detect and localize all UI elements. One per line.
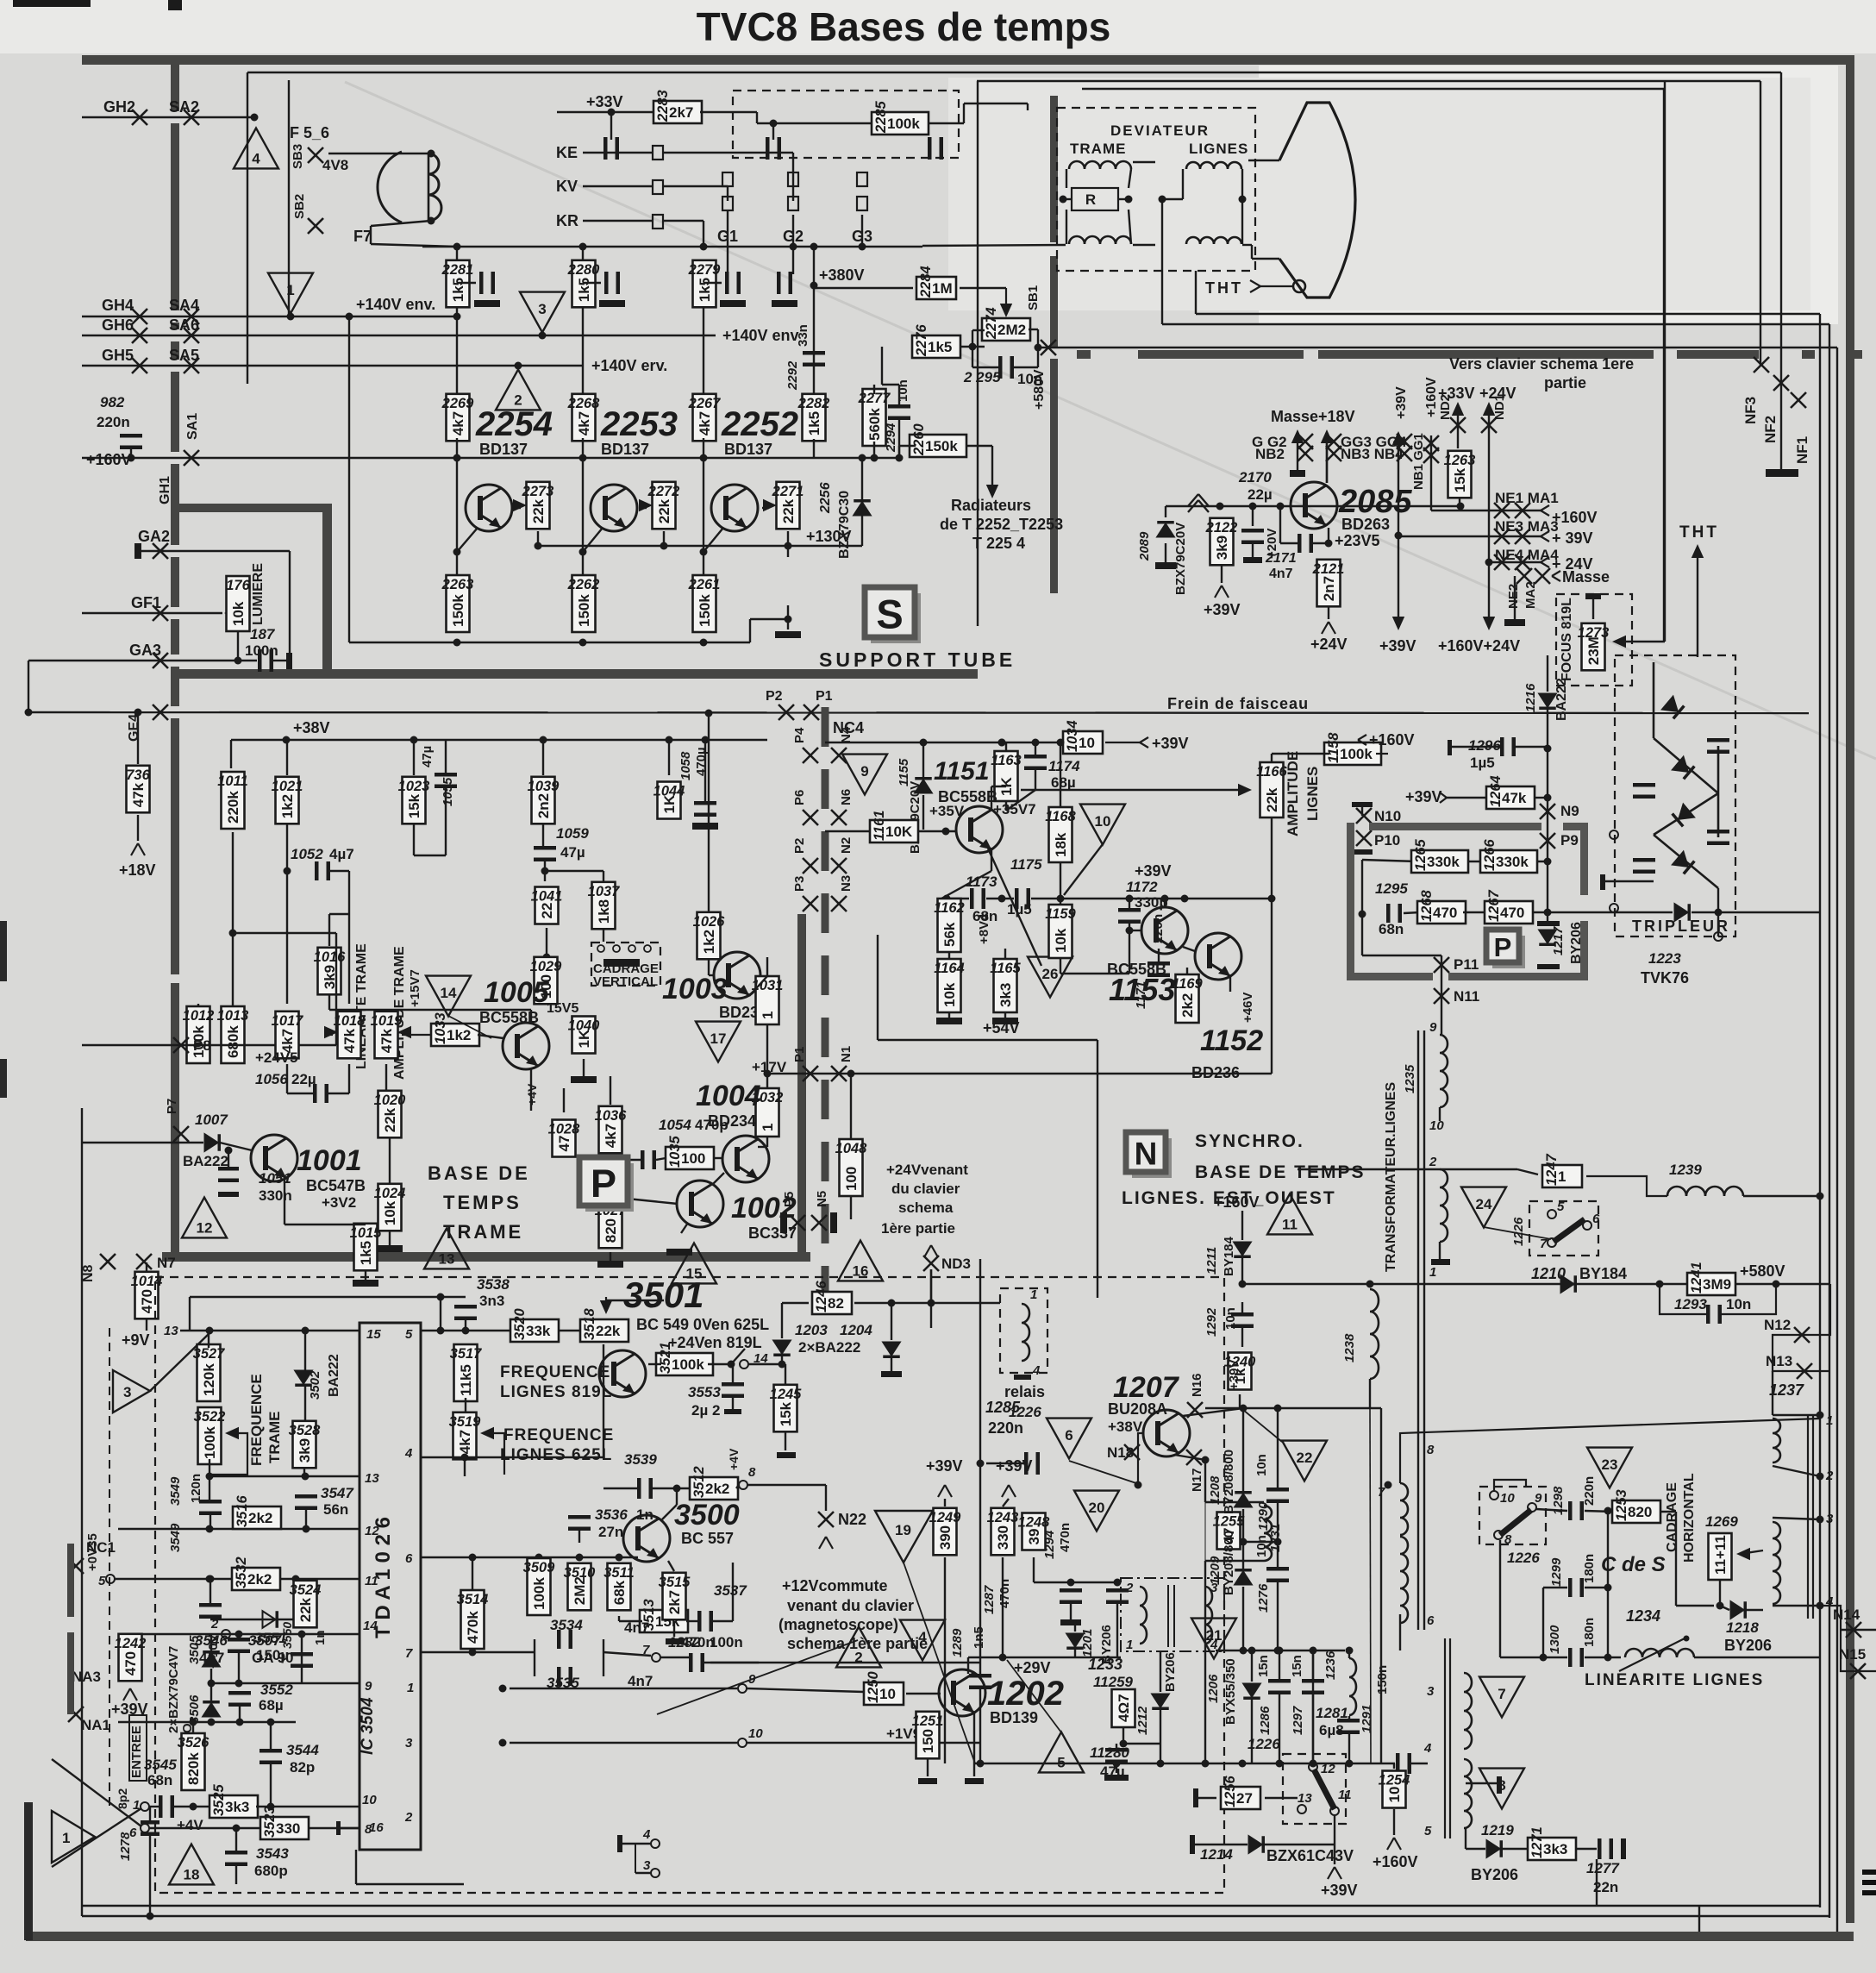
svg-text:12: 12 xyxy=(365,1524,379,1538)
wire col2 low xyxy=(582,438,584,552)
wire 1005 coll b xyxy=(329,1009,531,1011)
svg-text:1k5: 1k5 xyxy=(697,278,713,302)
wire 470 b xyxy=(1463,911,1485,913)
connector pin G3b xyxy=(857,197,867,210)
contact 6 mid xyxy=(1583,1221,1591,1230)
page split vertical gray bar b xyxy=(1050,256,1058,348)
svg-text:3522: 3522 xyxy=(194,1409,226,1425)
zener 2089 BZX79C20V xyxy=(1157,521,1174,537)
resistor 1273 23M xyxy=(1578,623,1610,671)
wire 2283-2285 xyxy=(700,111,757,113)
wire 1014 top xyxy=(146,1262,147,1273)
wire w21 top xyxy=(1440,1168,1517,1170)
resistor 2260 150k xyxy=(910,423,966,457)
wire 1277 down xyxy=(1596,1859,1598,1906)
chevron marker 2089 xyxy=(1188,494,1209,512)
transistor 1207 BU208A xyxy=(1143,1410,1190,1456)
svg-text:17: 17 xyxy=(710,1030,727,1047)
wire 3500 base drop xyxy=(676,1488,678,1505)
svg-text:2252: 2252 xyxy=(721,405,798,443)
svg-text:1297: 1297 xyxy=(1291,1706,1305,1735)
node 1287 xyxy=(1067,1579,1075,1587)
svg-text:partie: partie xyxy=(1544,374,1586,391)
wire 1020-1024 xyxy=(389,1138,391,1183)
page split dashed bar seg xyxy=(1677,350,1759,359)
page frame right thin v3 xyxy=(1663,89,1665,642)
wire tri6 diag xyxy=(1069,1461,1136,1483)
svg-text:P9: P9 xyxy=(1560,832,1579,849)
capacitor 2171 4n7 xyxy=(1298,534,1313,553)
wire 1036 bot xyxy=(610,1154,611,1197)
svg-text:+3V2: +3V2 xyxy=(322,1194,356,1211)
wire 1036 top xyxy=(610,1076,611,1105)
node col3 160V xyxy=(700,454,708,462)
svg-text:TVC8 Bases de temps: TVC8 Bases de temps xyxy=(697,4,1111,49)
svg-text:12: 12 xyxy=(197,1219,213,1236)
svg-text:3526: 3526 xyxy=(178,1735,210,1751)
connector X N1b xyxy=(831,1066,847,1081)
resistor 1034 10 xyxy=(1063,720,1103,754)
svg-text:N6: N6 xyxy=(839,789,854,805)
resistor 2261 xyxy=(688,575,721,632)
resistor 1242 470 xyxy=(115,1634,147,1682)
svg-text:BY206: BY206 xyxy=(1163,1652,1178,1692)
capacitor 1282 100n xyxy=(689,1653,704,1672)
svg-text:330n: 330n xyxy=(259,1187,292,1204)
dashed box FOCUS 819L xyxy=(1556,594,1632,686)
svg-text:6: 6 xyxy=(129,1826,137,1840)
wire P8 up xyxy=(335,933,337,1045)
svg-text:1: 1 xyxy=(1030,1287,1037,1302)
resistor 1014 470 xyxy=(131,1272,163,1319)
wire 1163 top xyxy=(1005,742,1007,751)
wire 1292 a xyxy=(1241,1302,1243,1314)
wire 2277 corner2 xyxy=(881,347,883,385)
potentiometer 1019 47k xyxy=(371,1012,403,1059)
svg-text:SA4: SA4 xyxy=(169,297,199,314)
wire emit col2 xyxy=(1204,1502,1206,1561)
wire row 1633 xyxy=(1205,1407,1381,1409)
wire lignes down xyxy=(1161,263,1163,324)
wire 3513-3537 xyxy=(686,1620,698,1622)
wire 1201 bot xyxy=(1074,1649,1076,1657)
svg-text:GA2: GA2 xyxy=(138,528,170,545)
wire 1276 a xyxy=(1277,1542,1279,1569)
node 1238 top xyxy=(1366,1281,1374,1288)
svg-text:187: 187 xyxy=(250,626,276,642)
svg-text:1k2: 1k2 xyxy=(701,930,717,954)
svg-text:LIGNES: LIGNES xyxy=(1189,141,1248,157)
wire 580 row xyxy=(1242,1283,1688,1285)
P bracket bottom bar r xyxy=(1448,973,1587,980)
right border bar xyxy=(1846,55,1854,1923)
dashdot box transfo 1233 xyxy=(1121,1578,1224,1651)
svg-text:ND2: ND2 xyxy=(1438,394,1453,420)
left gray bar segment xyxy=(171,718,179,974)
capacitor 1173 68n xyxy=(970,888,985,909)
wire 2285 up xyxy=(963,103,965,123)
svg-text:100k: 100k xyxy=(887,116,920,132)
svg-text:+140V erv.: +140V erv. xyxy=(591,357,667,374)
supply fork +18V xyxy=(131,843,145,855)
node tripleur out xyxy=(1715,909,1723,917)
page frame right thin v1 xyxy=(1780,72,1782,473)
svg-text:+24V5: +24V5 xyxy=(255,1049,298,1066)
wire 1035 out xyxy=(713,1157,723,1159)
node r1914 a xyxy=(1248,1647,1256,1655)
wire 1166 feed xyxy=(1021,789,1245,791)
resistor 1012 100k xyxy=(183,1006,215,1063)
svg-text:P: P xyxy=(1494,932,1512,962)
wire grid rail xyxy=(422,246,922,247)
node 1051 xyxy=(225,1147,233,1155)
wire 2285 lead xyxy=(757,122,872,124)
wire 1033 out xyxy=(478,1035,503,1038)
P-block frame left bar xyxy=(171,983,179,1259)
svg-text:3515: 3515 xyxy=(659,1575,691,1590)
triangle 4 b xyxy=(900,1620,945,1661)
wire 2285 out xyxy=(928,122,964,124)
terminal circle pin10r xyxy=(738,1738,747,1747)
connector X GG2 xyxy=(1298,434,1313,449)
terminal bar relais xyxy=(1014,1375,1031,1380)
wire sw top xyxy=(1312,1650,1314,1763)
node 3552 xyxy=(236,1719,244,1726)
terminal bar w2 xyxy=(1497,1776,1502,1794)
svg-text:TRANSFORMATEUR.LIGNES: TRANSFORMATEUR.LIGNES xyxy=(1384,1082,1398,1272)
svg-text:3514: 3514 xyxy=(457,1592,489,1607)
svg-text:T 225 4: T 225 4 xyxy=(972,535,1025,552)
svg-text:BU208A: BU208A xyxy=(1108,1400,1167,1418)
wire cap2295 lead xyxy=(972,366,999,368)
wire tri22 diag xyxy=(1243,1410,1282,1442)
contact 13 xyxy=(1298,1805,1306,1813)
wire 1202 emit xyxy=(973,1712,975,1776)
svg-text:1017: 1017 xyxy=(272,1013,304,1029)
contact 11 xyxy=(1330,1807,1339,1815)
wire 1013 top xyxy=(232,933,234,1005)
svg-text:1026: 1026 xyxy=(693,914,726,930)
resistor 2282 xyxy=(797,394,830,442)
svg-text:7: 7 xyxy=(642,1643,650,1657)
svg-text:3k9: 3k9 xyxy=(297,1438,313,1463)
wire 1052 out xyxy=(330,870,349,872)
svg-text:470: 470 xyxy=(122,1651,139,1675)
connector X GH4 xyxy=(132,309,147,324)
svg-text:BY206: BY206 xyxy=(1569,922,1584,964)
svg-text:+46V: +46V xyxy=(1241,993,1255,1023)
svg-text:NC4: NC4 xyxy=(833,719,864,736)
wire N22 drop xyxy=(825,1485,827,1511)
wire col2 mid xyxy=(582,307,584,397)
wire 1026 feed up xyxy=(708,713,710,911)
wire 1282 l xyxy=(660,1657,690,1658)
P bracket top bar xyxy=(1369,823,1541,830)
wire 1032 bot xyxy=(766,1137,768,1147)
node rail c2 xyxy=(579,243,587,251)
wire 1052 down xyxy=(348,871,350,1004)
wire tri14 diag xyxy=(448,1016,491,1038)
arrow into 3519 xyxy=(480,1427,494,1439)
wire 1286 b xyxy=(1279,1693,1280,1763)
wire row 1914 xyxy=(1216,1650,1345,1651)
wire 4n7 branch v xyxy=(1279,506,1281,543)
resistor 1245 15k xyxy=(770,1385,803,1432)
resistor 2274 2M2 xyxy=(982,307,1030,341)
svg-text:4k7: 4k7 xyxy=(457,1430,473,1454)
svg-text:4n7: 4n7 xyxy=(1269,567,1293,581)
svg-text:15k: 15k xyxy=(406,793,422,818)
node zener top xyxy=(859,454,866,462)
connector pin G3 xyxy=(857,172,867,186)
triangle 17 xyxy=(696,1022,741,1062)
svg-text:47µ: 47µ xyxy=(420,746,435,767)
wire 1023 bot xyxy=(413,824,415,855)
coil prim 8-7 xyxy=(1400,1483,1408,1535)
svg-text:1298: 1298 xyxy=(1551,1486,1566,1515)
wire 1037 top xyxy=(603,871,604,881)
connector X N16 xyxy=(1187,1402,1203,1418)
wire 1290 a xyxy=(1277,1408,1279,1489)
arrow into 2273 xyxy=(513,499,527,511)
wire 1002 coll xyxy=(712,1173,724,1185)
wire 1212 top xyxy=(1160,1651,1161,1692)
wire 1211 top xyxy=(1241,1211,1243,1240)
connector X GH2 xyxy=(132,110,147,125)
wire 1151 coll up2 xyxy=(991,786,1006,787)
wire 1237 top xyxy=(1773,1414,1820,1416)
svg-text:BASE DE TEMPS: BASE DE TEMPS xyxy=(1195,1162,1366,1182)
svg-text:3536: 3536 xyxy=(595,1506,628,1523)
wire 1280 top xyxy=(1116,1744,1117,1750)
svg-text:10k: 10k xyxy=(941,982,958,1007)
wire GA3 drop xyxy=(28,661,29,712)
connector X NA1 xyxy=(68,1707,84,1722)
capacitor tripleur L2 xyxy=(1633,858,1655,874)
wire 3513 in xyxy=(619,1620,642,1622)
svg-text:1242: 1242 xyxy=(115,1636,147,1651)
svg-text:14: 14 xyxy=(441,985,457,1001)
arrow into 176 xyxy=(224,607,238,619)
svg-text:N3: N3 xyxy=(839,875,854,892)
wire emit col3 xyxy=(1204,1561,1206,1763)
svg-text:1238: 1238 xyxy=(1342,1333,1357,1362)
wire 3534 bracket r xyxy=(603,1639,604,1676)
wire 3543 bot xyxy=(235,1864,237,1884)
capacitor 1051 330n xyxy=(218,1167,239,1182)
resistor 1044 1K xyxy=(653,782,685,819)
wire tri3 diag xyxy=(150,1333,209,1391)
dashed box deviateur xyxy=(1057,108,1255,271)
svg-text:Frein de faisceau: Frein de faisceau xyxy=(1167,695,1309,712)
svg-text:982: 982 xyxy=(100,394,125,410)
wire 1259-row xyxy=(1123,1743,1160,1744)
ground 1002 xyxy=(666,1249,692,1256)
fork +39V 1034 xyxy=(1105,737,1148,748)
wire KR right xyxy=(663,220,703,222)
svg-text:3511: 3511 xyxy=(603,1565,634,1581)
resistor 1017 4k7 xyxy=(272,1012,304,1059)
slash 1234 xyxy=(1619,1636,1690,1672)
wire trame right low xyxy=(1129,210,1131,244)
svg-text:1024: 1024 xyxy=(374,1186,406,1201)
svg-text:P7: P7 xyxy=(165,1099,179,1114)
wire 1202 coll xyxy=(967,1657,969,1674)
svg-text:BZX79C30: BZX79C30 xyxy=(837,491,852,559)
resistor 1168 18k xyxy=(1045,807,1076,862)
wire 176 down xyxy=(237,631,239,661)
wire 1158 left xyxy=(1272,753,1329,755)
node 1172 xyxy=(1126,895,1134,903)
wire 1282 ext xyxy=(710,1662,980,1663)
svg-text:22µ: 22µ xyxy=(291,1071,316,1087)
node 1239 out xyxy=(1817,1193,1824,1200)
wire GA2 drop xyxy=(289,551,291,660)
capacitor 2294 10n xyxy=(888,404,910,420)
svg-text:2292: 2292 xyxy=(785,360,800,391)
svg-text:3k3: 3k3 xyxy=(997,983,1014,1007)
wire dev drop xyxy=(1027,103,1029,110)
diode 1201 BY206 xyxy=(1066,1634,1084,1650)
resistor 3526 820k xyxy=(178,1733,210,1790)
svg-text:de T 2252_T2253: de T 2252_T2253 xyxy=(940,516,1063,533)
wire 1021 bot2 xyxy=(286,871,288,1004)
svg-text:1ère partie: 1ère partie xyxy=(881,1220,955,1237)
node pin15 b xyxy=(302,1327,310,1335)
svg-text:1254: 1254 xyxy=(1379,1773,1410,1788)
svg-text:27n: 27n xyxy=(598,1524,623,1540)
svg-text:18k: 18k xyxy=(1053,832,1069,857)
wire 1027 bot xyxy=(610,1252,611,1261)
svg-text:1206: 1206 xyxy=(1206,1674,1221,1703)
capacitor 1056 22u xyxy=(313,1084,328,1103)
node 1294 xyxy=(1114,1579,1122,1587)
svg-text:1207: 1207 xyxy=(1113,1371,1180,1404)
svg-text:1223: 1223 xyxy=(1648,950,1681,967)
svg-text:3539: 3539 xyxy=(624,1451,657,1468)
wire P1N1 row xyxy=(802,1073,1272,1074)
svg-text:BD137: BD137 xyxy=(601,441,649,458)
resistor 1269 11+11 xyxy=(1709,1533,1732,1580)
wire 1263 bot xyxy=(1459,498,1460,506)
wire F7 rail xyxy=(371,244,457,247)
resistor 3521 100k xyxy=(656,1342,713,1375)
wire emit join xyxy=(941,871,991,899)
capacitor 1294 470n xyxy=(1106,1588,1129,1604)
page frame right thin v2 xyxy=(1760,81,1761,366)
black mark top xyxy=(168,0,182,10)
wire 3528 bot xyxy=(303,1468,305,1476)
resistor 2279 xyxy=(688,260,722,308)
svg-text:BYX55/350: BYX55/350 xyxy=(1223,1658,1238,1725)
resistor 3515 2k7 xyxy=(659,1573,691,1620)
node 2265 bottom xyxy=(785,616,792,623)
svg-text:8p2: 8p2 xyxy=(116,1788,129,1809)
wire 1259 bot xyxy=(1122,1727,1124,1744)
wire 1287 bot xyxy=(1070,1602,1072,1619)
P bracket top bar r xyxy=(1563,823,1587,830)
node 1204 top xyxy=(888,1300,896,1307)
svg-text:15k: 15k xyxy=(778,1401,794,1426)
wire zener col c xyxy=(210,1719,212,1722)
resistor 3509 100k xyxy=(523,1558,556,1615)
wire 1012 top xyxy=(197,1004,199,1005)
capacitor 1287 470n xyxy=(1060,1588,1082,1604)
page split dashed bar seg xyxy=(1802,350,1815,359)
svg-text:2k2: 2k2 xyxy=(247,1571,272,1588)
wire 1021 top xyxy=(286,740,288,775)
svg-text:1211: 1211 xyxy=(1204,1247,1219,1275)
svg-text:4: 4 xyxy=(252,150,260,166)
block letter N xyxy=(1126,1132,1172,1178)
coil prim 7-6 xyxy=(1400,1537,1408,1623)
svg-text:3M9: 3M9 xyxy=(1703,1276,1731,1293)
svg-text:2k2: 2k2 xyxy=(1179,993,1196,1018)
wire 22k bottoms xyxy=(537,531,539,546)
connector pin KE xyxy=(653,146,663,160)
svg-text:N22: N22 xyxy=(838,1511,866,1528)
node row2045 a xyxy=(1113,1760,1121,1768)
capacitor 1054 470p xyxy=(641,1150,656,1169)
diode 1208 BY208 xyxy=(1235,1491,1252,1507)
node 1026 GE4 xyxy=(705,710,713,717)
wire 1001-1015 xyxy=(285,1224,366,1225)
supply arrow +24V down xyxy=(1483,562,1495,630)
wire pin10 c xyxy=(256,1806,360,1807)
wire N frame v2 xyxy=(1097,1040,1098,1298)
wire 2265 up xyxy=(787,605,789,619)
svg-text:1218: 1218 xyxy=(1726,1619,1759,1636)
svg-text:3527: 3527 xyxy=(193,1346,226,1362)
node 2283 cap xyxy=(608,109,616,116)
wire 2265 gnd xyxy=(787,619,789,629)
connector pin KV xyxy=(653,180,663,194)
svg-text:470: 470 xyxy=(1433,905,1457,921)
node 3554 xyxy=(499,1685,507,1693)
capacitor 3543 680p xyxy=(225,1851,247,1866)
wire 3537 out xyxy=(713,1620,733,1622)
arrow THT line xyxy=(1692,544,1704,657)
node GE4 xyxy=(25,709,33,717)
wire 736 top xyxy=(137,712,139,764)
svg-text:+160V: +160V xyxy=(1214,1193,1260,1211)
resistor 1040 1K xyxy=(568,1017,601,1054)
filament heater glyph xyxy=(378,152,402,222)
svg-text:180n: 180n xyxy=(1582,1554,1597,1583)
connector X P2 mid xyxy=(779,705,794,720)
node 2285 cap xyxy=(770,120,778,128)
capacitor 2295 10n xyxy=(998,356,1014,379)
wire 2271 down xyxy=(787,531,789,557)
node zener mid xyxy=(208,1680,216,1688)
wire 3551 bot xyxy=(238,1652,240,1683)
svg-text:+39V: +39V xyxy=(1227,1360,1241,1390)
wire 1059 bot xyxy=(544,859,546,881)
connector X GG4 xyxy=(1397,434,1412,449)
svg-text:24: 24 xyxy=(1476,1196,1492,1212)
svg-text:3553: 3553 xyxy=(688,1384,721,1400)
svg-text:BY206: BY206 xyxy=(1471,1866,1518,1883)
wire 1269 out xyxy=(1740,1550,1763,1554)
wire 1211 bot xyxy=(1241,1257,1243,1284)
node 1217 top xyxy=(1544,909,1552,917)
capacitor 3547 56n xyxy=(295,1494,317,1510)
wire 1161 right xyxy=(917,830,957,832)
node base 1153 xyxy=(1126,927,1134,935)
svg-text:+39V: +39V xyxy=(1379,637,1416,655)
left gray seg NC1 b xyxy=(67,1632,74,1714)
wire tri24 diag xyxy=(1484,1227,1551,1239)
